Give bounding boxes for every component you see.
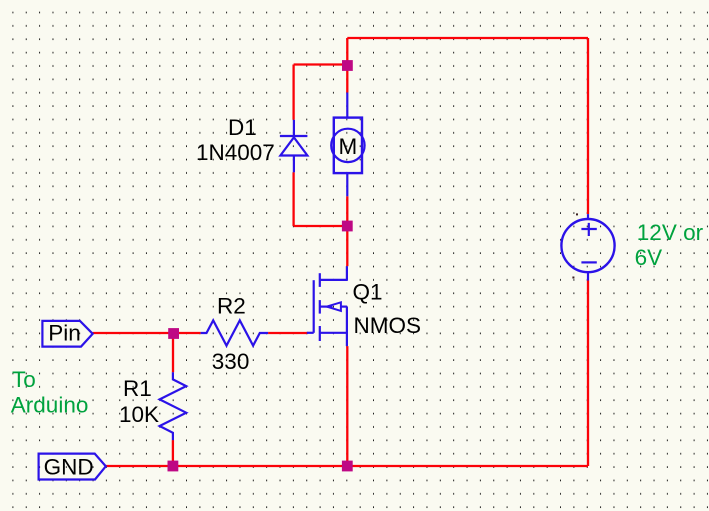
wire right column upper <box>587 38 589 214</box>
transistor Q1 drain bar <box>320 279 348 281</box>
transistor Q1 body bar left <box>320 306 333 308</box>
wire junction to R1 <box>172 333 174 372</box>
transistor Q1 channel segment middle <box>319 300 321 314</box>
transistor Q1 gate line <box>313 280 315 333</box>
svg-text:Q1: Q1 <box>353 280 383 305</box>
wire top rail <box>347 37 588 39</box>
wire center column junctionA to motor <box>346 38 348 93</box>
voltage source V1 minus sign <box>581 261 596 263</box>
transistor Q1 right vertical <box>346 307 348 347</box>
svg-text:330: 330 <box>212 349 250 374</box>
svg-text:10K: 10K <box>119 402 159 427</box>
svg-text:R2: R2 <box>217 294 246 319</box>
transistor Q1 gate stub <box>307 332 314 334</box>
transistor Q1 source bar <box>320 332 347 334</box>
svg-text:R1: R1 <box>123 376 152 401</box>
svg-text:D1: D1 <box>228 115 257 140</box>
transistor Q1 drain lead <box>346 266 348 280</box>
wire right column lower <box>587 281 589 467</box>
svg-text:GND: GND <box>44 454 94 479</box>
wire R1 to GND rail <box>172 440 174 466</box>
wire Pin to R2 <box>93 332 201 334</box>
diode D1 bottom lead <box>293 156 295 173</box>
resistor R1 zigzag <box>160 372 187 440</box>
diode D1 triangle <box>280 137 307 155</box>
voltage source V1 top lead <box>587 214 589 219</box>
svg-text:M: M <box>339 134 358 159</box>
voltage source V1 bottom lead <box>587 272 589 281</box>
junction node gate row <box>168 328 179 339</box>
junction node B (diode bottom) <box>342 221 353 232</box>
voltage source V1 plus sign <box>581 223 596 236</box>
svg-text:Pin: Pin <box>48 321 81 346</box>
svg-text:Arduino: Arduino <box>11 392 89 417</box>
wire diode top <box>292 65 294 120</box>
transistor Q1 body bar right <box>341 306 347 308</box>
junction node R1/GND <box>168 461 179 472</box>
junction node A (top) <box>342 60 353 71</box>
resistor R2 zigzag <box>201 320 269 345</box>
wire junctionA to diode branch <box>294 63 348 65</box>
motor M1 bottom lead <box>346 172 348 196</box>
voltage source V1 circle <box>561 219 614 272</box>
artifact dot near source bottom <box>572 277 574 279</box>
wire diode to junctionB <box>294 225 348 227</box>
artifact dot near source top <box>576 213 578 215</box>
diode D1 cathode bar <box>280 135 308 137</box>
wire motor bottom to mosfet drain <box>346 196 348 266</box>
wire mosfet source to GND rail <box>346 346 348 466</box>
svg-text:6V: 6V <box>635 245 663 270</box>
junction node source/GND <box>342 461 353 472</box>
svg-text:NMOS: NMOS <box>354 313 422 338</box>
transistor Q1 channel segment top <box>319 273 321 287</box>
svg-text:To: To <box>12 367 36 392</box>
motor M1 body rect <box>334 118 362 174</box>
wire R2 to gate <box>268 332 308 334</box>
wire diode bottom <box>292 172 294 226</box>
port GND pentagon <box>39 454 106 480</box>
diode D1 top lead <box>293 120 295 136</box>
port Pin pentagon <box>42 321 92 347</box>
motor M1 top lead <box>346 93 348 119</box>
svg-text:12V or: 12V or <box>637 220 704 245</box>
motor M1 circle <box>331 129 364 162</box>
svg-text:1N4007: 1N4007 <box>196 140 275 165</box>
transistor Q1 channel segment bottom <box>319 326 321 341</box>
transistor Q1 body arrow <box>327 302 341 311</box>
wire bottom GND rail <box>106 465 588 467</box>
